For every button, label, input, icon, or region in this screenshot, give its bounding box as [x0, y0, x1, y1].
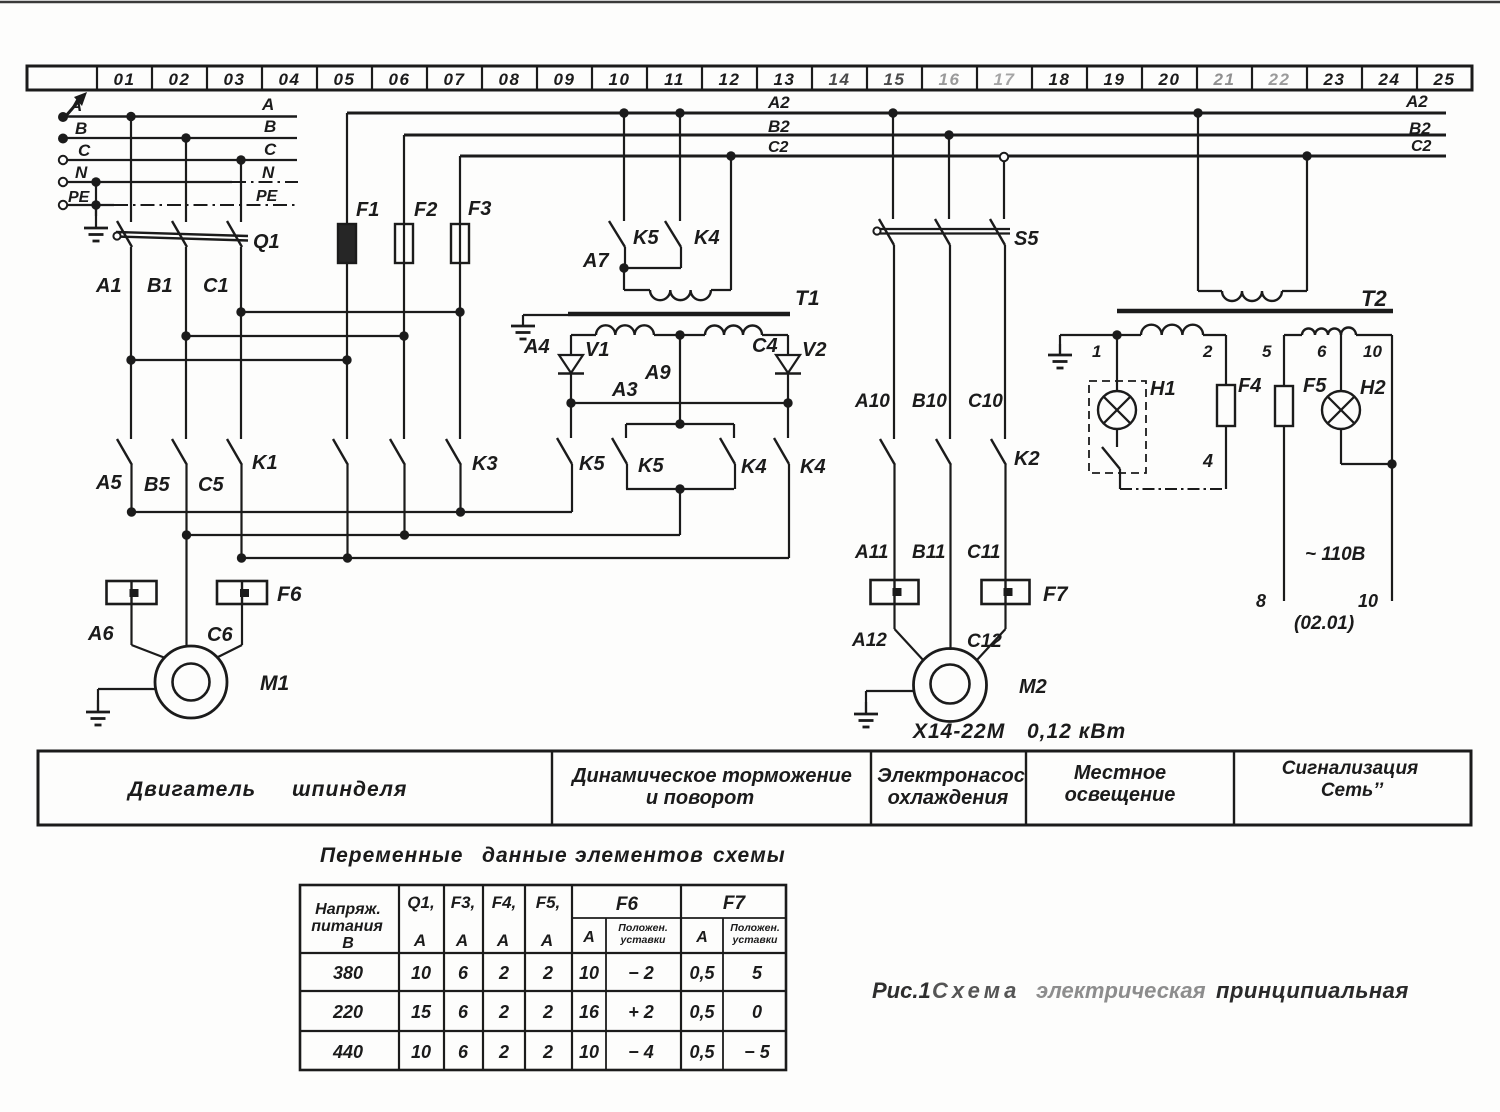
svg-text:A11: A11: [854, 542, 888, 563]
svg-text:F3: F3: [468, 198, 491, 220]
svg-text:A7: A7: [582, 250, 609, 272]
svg-text:380: 380: [333, 963, 363, 983]
terminal A: [58, 112, 68, 122]
svg-text:− 5: − 5: [744, 1042, 771, 1062]
data table frame: [300, 885, 786, 1070]
wire C12 to motor M2: [1004, 604, 1006, 629]
svg-text:220: 220: [332, 1002, 363, 1022]
wire C to motor M1: [241, 604, 243, 645]
fuse F4: [1217, 385, 1235, 426]
svg-text:B11: B11: [912, 542, 945, 563]
contact K1 pole C5: [227, 439, 242, 465]
svg-text:~ 110В: ~ 110В: [1305, 544, 1366, 565]
transformer T1 secondary right winding: [705, 326, 762, 336]
svg-text:22: 22: [1268, 70, 1291, 89]
lamp H1: [1098, 391, 1136, 429]
svg-text:15: 15: [884, 70, 906, 89]
svg-text:V1: V1: [585, 339, 609, 361]
svg-text:5: 5: [1262, 342, 1272, 361]
svg-text:K5: K5: [579, 453, 605, 475]
overload heater F7 phase C: [982, 580, 1030, 604]
svg-text:− 2: − 2: [628, 963, 654, 983]
transformer T1 secondary left winding: [571, 334, 596, 336]
fuse F5: [1275, 386, 1293, 426]
svg-text:23: 23: [1323, 70, 1346, 89]
svg-text:2: 2: [542, 963, 553, 983]
svg-text:F2: F2: [414, 199, 437, 221]
motor M2: [914, 649, 987, 722]
wire A to motor M1: [130, 604, 132, 645]
svg-text:B2: B2: [1409, 119, 1431, 138]
svg-text:+ 2: + 2: [628, 1002, 654, 1022]
contact K2 pole A: [880, 439, 895, 465]
transformer T2 secondary 1 winding: [1117, 334, 1141, 336]
switch S5 linkage bar: [876, 228, 1010, 230]
svg-text:A6: A6: [87, 623, 114, 645]
transformer T1 core: [568, 312, 790, 317]
svg-text:11: 11: [664, 70, 685, 89]
svg-text:питания: питания: [311, 918, 383, 935]
svg-text:21: 21: [1213, 70, 1236, 89]
svg-text:M1: M1: [260, 672, 289, 695]
ground T1 core: [522, 315, 524, 326]
terminal N: [59, 178, 67, 186]
svg-text:Двигатель: Двигатель: [126, 778, 256, 801]
wire V2 to node A3 right: [787, 374, 789, 403]
motor M1: [155, 646, 227, 718]
node T1 center tap: [675, 330, 684, 339]
node A7: [619, 263, 628, 272]
bus C2: [460, 155, 1446, 158]
terminal B: [58, 134, 68, 144]
data table sub-dividers: [605, 918, 607, 1070]
wire A2 to S5: [888, 108, 897, 117]
svg-text:B1: B1: [147, 275, 173, 297]
contact K2 pole C: [991, 439, 1006, 465]
svg-text:Q1: Q1: [253, 231, 280, 253]
wire motor M2 to ground: [866, 690, 914, 692]
svg-text:24: 24: [1378, 70, 1401, 89]
phase line A: [67, 115, 297, 117]
contact K5 (T1 primary): [619, 108, 628, 117]
wire tie C to K3/K4 (y558): [237, 553, 246, 562]
fixture H1 dashed enclosure: [1089, 381, 1146, 473]
switch Q1 pole B blade: [172, 221, 187, 247]
svg-text:05: 05: [334, 70, 356, 89]
node pair bottom: [626, 488, 734, 490]
svg-text:F3,: F3,: [451, 893, 476, 912]
svg-text:16: 16: [939, 70, 961, 89]
svg-text:16: 16: [579, 1002, 600, 1022]
contact K1 pole B5: [172, 439, 187, 465]
wire C1 vertical: [240, 247, 242, 439]
wire T2 tap6 to lamp H2: [1340, 335, 1342, 391]
overload heater F7 phase A: [871, 580, 919, 604]
switch in H1 fixture: [1116, 429, 1118, 447]
wire C2 to S5: [1000, 153, 1008, 161]
wire T2 pin1 to lamp H1: [1116, 335, 1118, 391]
contact K2 pole B: [936, 439, 951, 465]
svg-text:10: 10: [1358, 591, 1378, 611]
svg-text:8: 8: [1256, 591, 1266, 611]
terminal strip frame 01-25: [27, 66, 1472, 90]
wire phase B drop to Q1: [181, 133, 190, 142]
svg-text:F6: F6: [616, 894, 639, 915]
svg-text:K5: K5: [638, 455, 664, 477]
svg-text:13: 13: [774, 70, 796, 89]
svg-text:Т1: Т1: [795, 287, 820, 310]
svg-text:C: C: [78, 141, 91, 160]
wire A1 feeder to F1: [126, 355, 135, 364]
node T2 pin1: [1112, 330, 1121, 339]
svg-text:N: N: [75, 163, 88, 182]
svg-text:19: 19: [1104, 70, 1126, 89]
svg-text:1: 1: [1092, 342, 1101, 361]
fuse F3: [459, 156, 461, 439]
svg-text:10: 10: [609, 70, 631, 89]
svg-text:N: N: [262, 163, 275, 182]
svg-text:0: 0: [752, 1002, 762, 1022]
svg-text:А: А: [413, 931, 426, 950]
svg-text:0,5: 0,5: [689, 1042, 715, 1062]
wire T1 primary to C2: [711, 289, 731, 291]
svg-text:C1: C1: [203, 275, 229, 297]
svg-text:5: 5: [752, 963, 763, 983]
svg-text:A1: A1: [95, 275, 122, 297]
svg-text:уставки: уставки: [732, 934, 779, 946]
contact K3 pole 3: [446, 439, 461, 465]
wire T1 sec right to V2: [787, 335, 789, 354]
svg-text:10: 10: [411, 963, 431, 983]
svg-text:2: 2: [542, 1042, 553, 1062]
svg-text:A: A: [69, 96, 82, 115]
wire motor M1 to ground: [98, 688, 155, 690]
svg-text:B: B: [264, 117, 276, 136]
transformer T2 primary winding: [1222, 291, 1282, 301]
svg-text:08: 08: [499, 70, 521, 89]
svg-text:K4: K4: [741, 456, 767, 478]
svg-text:06: 06: [389, 70, 411, 89]
transformer T1 primary winding: [650, 290, 711, 300]
contact K4 (T1 primary): [675, 108, 684, 117]
fuse F2: [403, 135, 405, 439]
wire tie B to K3/pair (y535): [182, 530, 191, 539]
svg-text:охлаждения: охлаждения: [888, 787, 1009, 809]
svg-text:C4: C4: [752, 335, 778, 357]
wire C2 to T2 primary: [1302, 151, 1311, 160]
contact K4 parallel pair right: [733, 424, 735, 438]
svg-text:Местное: Местное: [1074, 762, 1166, 784]
fuse F1: [346, 113, 348, 439]
svg-text:принципиальная: принципиальная: [1216, 978, 1409, 1003]
svg-text:электрическая: электрическая: [1036, 978, 1206, 1003]
svg-text:09: 09: [554, 70, 576, 89]
svg-text:(02.01): (02.01): [1294, 613, 1354, 634]
switch S5 pole B blade: [935, 219, 950, 245]
wire A12 to motor M2: [893, 604, 895, 629]
switch Q1 linkage bar: [116, 232, 248, 236]
svg-text:6: 6: [458, 963, 469, 983]
ground T2: [1059, 344, 1061, 355]
svg-text:PE: PE: [68, 189, 91, 206]
svg-text:V2: V2: [802, 339, 826, 361]
svg-text:F5: F5: [1303, 375, 1327, 397]
svg-text:Н2: Н2: [1360, 377, 1386, 399]
svg-text:6: 6: [1317, 342, 1327, 361]
svg-text:440: 440: [332, 1042, 363, 1062]
phase line B: [67, 137, 297, 139]
contact K1 pole A5: [117, 439, 132, 465]
svg-text:2: 2: [498, 1002, 509, 1022]
svg-text:Сигнализация: Сигнализация: [1282, 758, 1419, 779]
svg-text:A9: A9: [644, 362, 671, 384]
node A3 wire: [566, 398, 575, 407]
svg-text:М2: М2: [1019, 676, 1047, 698]
wire A2 to T2 primary: [1193, 108, 1202, 117]
svg-text:S5: S5: [1014, 228, 1039, 250]
contact K3 pole 1: [333, 439, 348, 465]
arrow on phase A: [65, 95, 84, 117]
wire A1 vertical: [130, 247, 132, 439]
svg-text:B2: B2: [768, 117, 790, 136]
wire tie A to K3/K5 (y512): [127, 507, 136, 516]
svg-text:6: 6: [458, 1002, 469, 1022]
transformer T2 core: [1117, 309, 1393, 314]
node A9 wire: [679, 335, 681, 424]
svg-text:03: 03: [224, 70, 246, 89]
phase line C: [68, 159, 298, 161]
lamp H2: [1322, 391, 1360, 429]
svg-text:А: А: [540, 931, 553, 950]
svg-text:20: 20: [1158, 70, 1181, 89]
svg-text:А: А: [496, 931, 509, 950]
svg-text:F7: F7: [723, 893, 747, 914]
svg-text:A: A: [261, 95, 274, 114]
svg-text:15: 15: [411, 1002, 432, 1022]
svg-text:и поворот: и поворот: [646, 787, 754, 809]
svg-text:F7: F7: [1043, 583, 1069, 606]
svg-text:Q1,: Q1,: [407, 893, 434, 912]
terminal PE: [59, 201, 67, 209]
svg-text:0,5: 0,5: [689, 963, 715, 983]
svg-text:Электронасос: Электронасос: [877, 765, 1025, 787]
wire T2 pin2 to F4: [1225, 335, 1227, 385]
svg-text:Схема: Схема: [932, 978, 1020, 1003]
svg-text:10: 10: [579, 1042, 599, 1062]
svg-text:− 4: − 4: [628, 1042, 654, 1062]
transformer T2 secondary 2 winding: [1302, 329, 1341, 336]
ground M1: [97, 700, 99, 712]
bus A2: [347, 112, 1446, 115]
svg-text:Х14-22М: Х14-22М: [912, 720, 1005, 743]
svg-text:PE: PE: [256, 188, 279, 205]
svg-text:элементов: элементов: [575, 844, 704, 867]
svg-text:А: А: [695, 929, 708, 946]
switch Q1 pole C blade: [227, 221, 242, 247]
wire C1 feeder to F3: [236, 307, 245, 316]
svg-text:C2: C2: [768, 139, 789, 156]
wire V1 to node A3 left: [570, 374, 572, 403]
svg-text:25: 25: [1433, 70, 1456, 89]
wire T2 pin5 to F5: [1283, 335, 1285, 386]
contact K5 left branch: [570, 403, 572, 438]
svg-text:Т2: Т2: [1361, 286, 1387, 311]
svg-text:Н1: Н1: [1150, 378, 1176, 400]
wire H2 to pin10: [1340, 429, 1342, 464]
transformer T1 secondary center wire: [654, 334, 705, 336]
overload heater F6 phase A: [107, 581, 157, 604]
wire T1 sec left to V1: [570, 335, 572, 354]
svg-text:В: В: [342, 935, 354, 952]
contact K4 outer branch: [787, 403, 789, 438]
wire F5 to pin8: [1283, 426, 1285, 601]
diode V1: [559, 355, 583, 373]
svg-text:18: 18: [1049, 70, 1071, 89]
wire pin10 vertical: [1391, 335, 1393, 601]
data table row lines: [572, 917, 786, 919]
svg-text:K3: K3: [472, 453, 498, 475]
svg-text:Рис.1: Рис.1: [872, 978, 931, 1003]
svg-text:F4: F4: [1238, 375, 1261, 397]
svg-text:F6: F6: [277, 583, 302, 606]
svg-text:0,5: 0,5: [689, 1002, 715, 1022]
switch Q1 pole A blade: [117, 221, 132, 247]
svg-text:2: 2: [542, 1002, 553, 1022]
switch S5 pole A blade: [879, 219, 894, 245]
svg-text:02: 02: [169, 70, 191, 89]
svg-text:C2: C2: [1411, 138, 1432, 155]
svg-text:схемы: схемы: [713, 844, 786, 867]
svg-text:14: 14: [829, 70, 851, 89]
svg-text:F5,: F5,: [536, 893, 561, 912]
switch S5 pole C blade: [990, 219, 1005, 245]
page top edge: [0, 1, 1500, 4]
function zone table frame: [38, 751, 1471, 825]
ground M2: [865, 702, 867, 714]
svg-text:Напряж.: Напряж.: [315, 901, 381, 918]
svg-text:2: 2: [1202, 342, 1213, 361]
ground PE: [95, 205, 97, 228]
svg-text:K4: K4: [694, 227, 720, 249]
wire B2 to S5: [944, 130, 953, 139]
svg-text:B: B: [75, 119, 87, 138]
svg-text:2: 2: [498, 963, 509, 983]
svg-text:0,12 кВт: 0,12 кВт: [1027, 720, 1126, 743]
svg-text:4: 4: [1202, 451, 1213, 471]
junction N-PE tie: [91, 177, 100, 186]
svg-text:10: 10: [579, 963, 599, 983]
svg-text:C11: C11: [967, 542, 1000, 563]
phase line N: [68, 181, 233, 183]
wire phase C drop to Q1: [236, 155, 245, 164]
svg-text:Сеть’’: Сеть’’: [1321, 780, 1384, 801]
svg-text:A5: A5: [95, 472, 122, 494]
svg-text:Переменные: Переменные: [320, 844, 464, 867]
svg-text:A4: A4: [523, 336, 550, 358]
svg-text:K1: K1: [252, 452, 278, 474]
svg-text:F1: F1: [356, 199, 379, 221]
svg-text:A12: A12: [851, 630, 887, 651]
wire H1 return to pin4: [1120, 488, 1226, 490]
svg-text:10: 10: [1363, 342, 1382, 361]
wire N/PE to ground: [95, 182, 97, 216]
svg-text:A3: A3: [611, 379, 638, 401]
svg-text:17: 17: [994, 70, 1016, 89]
svg-text:12: 12: [719, 70, 741, 89]
wire T2 pin1 to ground: [1060, 334, 1117, 336]
svg-text:10: 10: [411, 1042, 431, 1062]
svg-text:А: А: [582, 929, 595, 946]
svg-text:освещение: освещение: [1065, 784, 1176, 806]
bus B2: [404, 134, 1446, 137]
svg-text:K2: K2: [1014, 448, 1040, 470]
wire pair bottom stem: [679, 489, 681, 535]
overload heater F6 phase C: [217, 581, 267, 604]
svg-text:C12: C12: [967, 631, 1002, 652]
svg-text:6: 6: [458, 1042, 469, 1062]
svg-text:A10: A10: [854, 391, 890, 412]
wire A7 to T1 primary: [623, 268, 625, 290]
svg-text:01: 01: [114, 70, 136, 89]
svg-text:C: C: [264, 140, 277, 159]
svg-text:C10: C10: [968, 391, 1003, 412]
phase line PE: [68, 204, 115, 206]
contact K3 pole 2: [390, 439, 405, 465]
svg-text:C6: C6: [207, 624, 233, 646]
svg-text:K5: K5: [633, 227, 659, 249]
svg-text:C5: C5: [198, 474, 224, 496]
diode V2: [776, 355, 800, 373]
wire phase A drop to Q1: [126, 112, 135, 121]
svg-text:Динамическое торможение: Динамическое торможение: [570, 765, 852, 787]
svg-text:А: А: [455, 931, 468, 950]
svg-text:F4,: F4,: [492, 893, 517, 912]
wire B1 feeder to F2: [181, 331, 190, 340]
contact K5 parallel pair left: [675, 419, 684, 428]
svg-text:04: 04: [279, 70, 301, 89]
svg-text:2: 2: [498, 1042, 509, 1062]
svg-text:данные: данные: [482, 844, 568, 867]
svg-text:A2: A2: [1405, 92, 1428, 111]
svg-text:Положен.: Положен.: [730, 922, 780, 934]
svg-text:уставки: уставки: [620, 934, 667, 946]
svg-text:K4: K4: [800, 456, 826, 478]
svg-text:B10: B10: [912, 391, 947, 412]
wire A10: [893, 245, 895, 439]
terminal C: [59, 156, 67, 164]
wire B10: [949, 245, 951, 439]
wire C10: [1004, 245, 1006, 439]
svg-text:07: 07: [444, 70, 466, 89]
svg-text:Положен.: Положен.: [618, 922, 668, 934]
svg-text:B5: B5: [144, 474, 170, 496]
svg-text:A2: A2: [767, 93, 790, 112]
svg-text:шпинделя: шпинделя: [292, 778, 407, 801]
wire B1 vertical: [185, 247, 187, 439]
